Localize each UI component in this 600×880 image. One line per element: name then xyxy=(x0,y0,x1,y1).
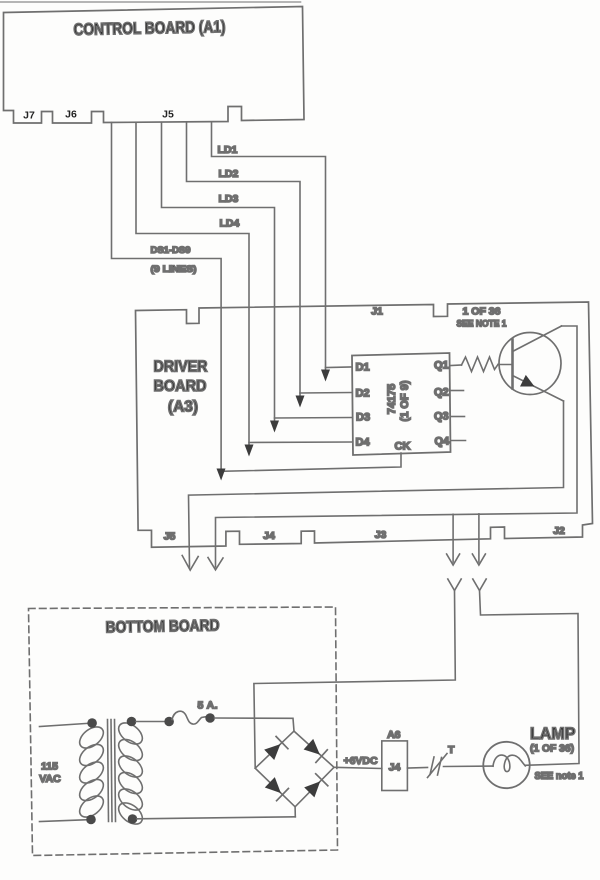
svg-text:J5: J5 xyxy=(164,531,176,543)
IC U1 74175 xyxy=(352,353,451,455)
svg-text:SEE NOTE 1: SEE NOTE 1 xyxy=(457,319,508,330)
svg-text:D4: D4 xyxy=(356,437,371,449)
diode D-BL xyxy=(265,777,289,801)
svg-text:A6: A6 xyxy=(387,729,401,741)
wire LD1 xyxy=(212,123,326,379)
wire secondary bottom to bridge xyxy=(137,817,295,819)
svg-text:LD1: LD1 xyxy=(218,144,238,156)
wire bridge to J4 xyxy=(334,767,382,768)
svg-text:CK: CK xyxy=(395,441,411,453)
svg-text:D2: D2 xyxy=(356,388,370,400)
arrow LD1 xyxy=(321,370,330,382)
svg-text:1 OF 36: 1 OF 36 xyxy=(463,307,501,318)
wire LD3 xyxy=(162,123,275,430)
transformer core xyxy=(108,720,116,822)
svg-text:Q1: Q1 xyxy=(434,360,449,372)
svg-text:J4: J4 xyxy=(389,762,401,774)
wire secondary to fuse xyxy=(136,721,165,723)
wire LD2 xyxy=(187,123,301,405)
breaker T xyxy=(428,754,448,778)
driver board A3 xyxy=(136,302,593,547)
wire DS1-DS9 xyxy=(112,123,222,478)
svg-text:LD3: LD3 xyxy=(219,193,239,205)
wire from chevron right to lamp xyxy=(480,591,580,766)
pin Q4 stub xyxy=(451,440,466,442)
terminal dot primary bottom xyxy=(86,815,96,825)
bridge rectifier CR1 diamond xyxy=(255,731,334,807)
chevron connector right xyxy=(473,579,486,591)
svg-text:J3: J3 xyxy=(375,529,387,541)
svg-text:J1: J1 xyxy=(371,306,383,318)
wire LD2 branch to D2 xyxy=(300,392,352,395)
arrow LD3 xyxy=(270,421,279,433)
terminal dot secondary top xyxy=(127,717,137,727)
pin Q3 stub xyxy=(451,416,465,418)
transistor Q1 xyxy=(499,333,561,395)
wire primary top xyxy=(40,723,89,726)
terminal dot secondary bottom xyxy=(128,814,138,824)
arrow at J5 right xyxy=(208,558,223,570)
svg-text:CONTROL BOARD (A1): CONTROL BOARD (A1) xyxy=(73,18,225,39)
wire LD1 branch to D1 xyxy=(326,366,352,369)
wire J4 to breaker xyxy=(407,767,427,770)
wire breaker to lamp xyxy=(444,765,494,767)
arrow J3 left xyxy=(447,554,460,565)
svg-text:J6: J6 xyxy=(65,109,77,121)
wire primary bottom xyxy=(40,820,88,822)
svg-text:J4: J4 xyxy=(263,530,275,542)
wire LD4 xyxy=(136,123,249,454)
wire collector to J3/J5 xyxy=(216,326,578,567)
svg-text:LAMP: LAMP xyxy=(530,724,576,743)
control board A1 xyxy=(4,7,305,124)
svg-text:LD2: LD2 xyxy=(219,168,239,180)
svg-text:Q3: Q3 xyxy=(434,411,449,423)
arrow LD2 xyxy=(296,396,305,408)
wire fuse to bridge top xyxy=(215,718,295,731)
diode D-TL xyxy=(264,737,288,761)
svg-text:T: T xyxy=(448,744,455,756)
svg-text:(9 LINES): (9 LINES) xyxy=(151,264,197,275)
fuse F1 squiggle xyxy=(172,711,206,724)
wire from chevron left to bridge xyxy=(254,591,455,769)
svg-text:BOTTOM BOARD: BOTTOM BOARD xyxy=(105,618,219,637)
scan edge artifact xyxy=(1,1,301,3)
svg-text:(1 OF 36): (1 OF 36) xyxy=(530,743,574,755)
wire J3 branch left xyxy=(452,514,454,562)
svg-text:(1 OF 9): (1 OF 9) xyxy=(399,380,411,421)
wire LD4 branch to D4 xyxy=(249,441,352,444)
svg-text:+6VDC: +6VDC xyxy=(344,755,378,767)
wire J3 branch right xyxy=(478,514,480,562)
wire emitter return xyxy=(189,401,564,567)
svg-text:J5: J5 xyxy=(162,109,174,121)
lamp DS1 xyxy=(483,742,529,788)
arrow DS xyxy=(217,469,226,481)
svg-text:DS1-DS9: DS1-DS9 xyxy=(151,245,191,256)
svg-text:Q2: Q2 xyxy=(434,387,449,399)
pin Q2 stub xyxy=(451,390,464,392)
chevron connector left xyxy=(448,579,461,591)
transformer T1 secondary xyxy=(115,719,147,829)
pin Q1 wire xyxy=(451,364,462,367)
svg-text:115: 115 xyxy=(41,761,58,773)
wire LD3 branch to D3 xyxy=(275,417,352,420)
transformer T1 primary xyxy=(76,723,108,822)
svg-text:D3: D3 xyxy=(356,412,370,424)
svg-text:J2: J2 xyxy=(553,525,565,537)
svg-text:SEE note 1: SEE note 1 xyxy=(535,771,584,782)
diode D-TR xyxy=(304,739,328,763)
arrow J3 right xyxy=(472,554,485,565)
svg-text:BOARD: BOARD xyxy=(154,378,207,395)
svg-text:74175: 74175 xyxy=(386,384,398,415)
arrow at J5 left xyxy=(182,556,198,571)
terminal dot primary top xyxy=(87,718,97,728)
svg-text:5 A.: 5 A. xyxy=(198,700,218,712)
lamp filament xyxy=(493,755,525,771)
fuse F1 dot left xyxy=(164,717,174,727)
bottom board dashed outline xyxy=(29,607,338,856)
resistor R1 xyxy=(462,357,499,372)
svg-text:DRIVER: DRIVER xyxy=(154,359,208,376)
svg-text:J7: J7 xyxy=(23,110,35,122)
wire bridge bottom stub xyxy=(294,807,296,817)
svg-text:Q4: Q4 xyxy=(435,436,451,448)
wire DS to CK xyxy=(221,453,401,471)
svg-text:(A3): (A3) xyxy=(168,399,198,416)
svg-text:VAC: VAC xyxy=(39,773,61,785)
diode D-BR xyxy=(304,774,328,798)
svg-text:LD4: LD4 xyxy=(220,218,240,230)
arrow LD4 xyxy=(245,445,254,457)
svg-text:D1: D1 xyxy=(356,362,370,374)
connector A6 J4 box xyxy=(382,741,408,791)
fuse F1 dot right xyxy=(205,713,215,723)
